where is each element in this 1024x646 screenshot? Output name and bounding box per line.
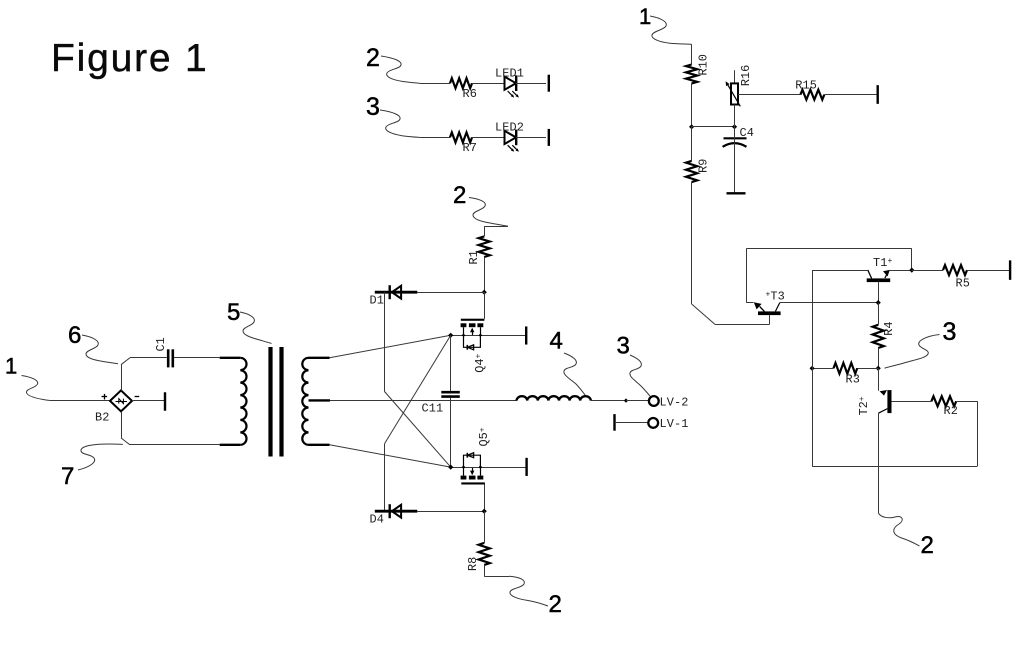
wire: secondary top diagonal to Q4 node: [330, 335, 451, 358]
node: R10/R9 junction: [689, 124, 694, 129]
wire: top box right vertical: [911, 249, 913, 271]
svg-text:2: 2: [549, 591, 562, 618]
wire: R1 top: [484, 226, 508, 228]
transformer primary winding: [240, 358, 246, 445]
MOSFET Q5 channel stubs: [461, 476, 467, 480]
terminal (B2 right): [164, 392, 166, 411]
MOSFET Q4 channel stubs: [461, 323, 467, 327]
resistor R1: [479, 236, 490, 257]
long vertical wire (left of T2 block): [812, 270, 814, 466]
wire: node to R16/C4 node: [692, 126, 735, 128]
svg-text:R9: R9: [697, 159, 711, 173]
wire: to T3 base: [715, 324, 769, 326]
wire: R15 to terminal: [824, 94, 876, 96]
resistor R15: [800, 90, 824, 100]
wire: secondary bottom diagonal to Q5 node: [330, 445, 451, 467]
resistor R10: [686, 65, 697, 84]
diode D4: [392, 505, 401, 518]
transistor T2: [878, 368, 880, 391]
terminal (R5): [1009, 260, 1011, 280]
wire: R2 to box corner: [956, 401, 977, 403]
svg-text:3: 3: [617, 333, 630, 360]
svg-text:D1: D1: [370, 294, 384, 308]
svg-text:R4: R4: [882, 322, 896, 336]
connector LV-2 circle: [649, 396, 659, 406]
LED LED1: [505, 77, 517, 90]
diode D4 lead wire: [375, 510, 418, 513]
terminal (C4 bottom): [727, 192, 746, 194]
MOSFET Q4 gate wire: [484, 292, 486, 319]
LED LED2: [505, 131, 517, 144]
node: Q4 source rail: [451, 335, 527, 337]
transformer primary top lead: [220, 357, 241, 359]
svg-text:2: 2: [921, 532, 934, 559]
svg-text:4: 4: [550, 328, 563, 355]
terminal (R15): [877, 85, 879, 104]
transformer primary bottom lead: [220, 444, 241, 446]
svg-text:R7: R7: [463, 141, 477, 155]
svg-text:LED2: LED2: [495, 121, 524, 135]
capacitor C4 curved plate: [723, 143, 747, 147]
wire: R7 to LED2: [472, 137, 505, 139]
wire: leader to B2 +: [50, 400, 110, 402]
wire: terminal to LV-1: [615, 422, 648, 424]
capacitor C11 plates: [441, 391, 460, 394]
MOSFET Q4 leads: [463, 327, 465, 335]
svg-text:5: 5: [227, 299, 240, 326]
resistor R3: [834, 363, 858, 374]
svg-text:R15: R15: [795, 79, 817, 93]
node: R1/D1/Q4-gate junction: [482, 290, 487, 295]
svg-text:Figure 1: Figure 1: [51, 37, 208, 80]
wire: node to R4: [878, 303, 880, 325]
wire: D4 branch vertical (lower): [384, 444, 386, 512]
wire: cross diagonal to Q5 node: [385, 392, 451, 468]
MOSFET Q5 body diode: [466, 453, 468, 458]
connector LV-1 circle: [648, 418, 658, 428]
svg-text:R6: R6: [463, 87, 477, 101]
svg-text:R10: R10: [697, 54, 711, 75]
wire: R10 to node: [691, 83, 693, 126]
MOSFET Q4 body diode: [466, 345, 468, 350]
terminal (LV-1): [613, 414, 615, 431]
svg-text:6: 6: [68, 322, 81, 349]
wire: leader to R7: [420, 137, 450, 139]
diode D1 lead wire: [375, 291, 418, 294]
wire: top to R10: [691, 44, 693, 64]
resistor R6: [450, 78, 472, 88]
minus sign (B2): [135, 396, 140, 398]
leader squiggle to LED2 row: [380, 110, 420, 137]
leader squiggle from T2 emitter wire: [878, 513, 919, 546]
leader squiggle to R1 wire: [469, 198, 508, 227]
wire: D1 to node: [417, 292, 484, 294]
MOSFET Q5 gate bar: [461, 482, 485, 484]
trimmer R16 body: [731, 83, 738, 104]
wire: T1 emitter to R5 node: [890, 270, 912, 272]
node: LV-2 junction: [624, 398, 628, 402]
leader squiggle to primary bottom wire: [78, 444, 123, 470]
wire: inductor to LV-2 node: [591, 400, 624, 402]
svg-text:C4: C4: [740, 126, 754, 140]
LED1 emission arrows: [508, 91, 512, 95]
wire: bottom box horizontal: [812, 466, 977, 468]
diode D1: [392, 286, 401, 299]
svg-text:2: 2: [453, 182, 466, 209]
svg-text:B2: B2: [95, 411, 109, 425]
source B2 diamond: [110, 390, 132, 411]
node: Q5 junction dot: [448, 465, 453, 470]
MOSFET Q5 leads: [463, 467, 465, 476]
wire: node to LV-2: [626, 400, 649, 402]
wire: R4 to R3 node: [878, 348, 880, 368]
wire: D1 branch vertical (upper): [384, 292, 386, 391]
wire: T1 left to long vertical: [812, 270, 868, 272]
terminal (LED2 row): [548, 129, 550, 146]
node: T1 base / T3 collector junction: [876, 300, 881, 305]
svg-text:R8: R8: [466, 557, 480, 571]
terminal (LED1 row): [548, 75, 550, 92]
svg-text:D4: D4: [370, 513, 384, 527]
wire: D4 to node: [417, 511, 484, 513]
node: Q5 source rail: [451, 467, 527, 469]
wire: B2 bottom vertical: [121, 411, 123, 438]
wire: R16 bottom to node: [734, 105, 736, 127]
svg-text:R3: R3: [846, 373, 860, 387]
wire: diagonal bend to T3 base line: [692, 304, 716, 325]
transformer core bar 1: [268, 347, 272, 457]
transformer secondary center tap lead: [309, 399, 331, 401]
capacitor C4 top plate: [724, 137, 747, 139]
svg-text:LV-2: LV-2: [660, 395, 689, 409]
MOSFET Q4 gate bar: [461, 319, 485, 321]
terminal (Q5): [525, 458, 527, 476]
wire: LED1 to terminal: [516, 83, 546, 85]
svg-text:7: 7: [61, 463, 74, 490]
wire: R3 to left vertical: [812, 368, 833, 370]
wire: R8 bottom: [484, 565, 486, 576]
resistor R9: [686, 161, 697, 182]
svg-text:3: 3: [366, 93, 380, 121]
B2 internal symbol: [116, 401, 127, 403]
svg-text:LV-1: LV-1: [660, 417, 689, 431]
node: D4/R8/Q5-gate junction: [482, 509, 487, 514]
transformer core bar 2: [279, 347, 283, 457]
MOSFET Q5 body loop: [464, 455, 481, 467]
leader squiggle from R8 wire: [509, 576, 548, 606]
leader squiggle to R10 wire: [650, 16, 692, 44]
wire: R16 to R15: [738, 94, 801, 96]
wire: chamfer to primary bottom wire: [121, 438, 130, 445]
wire: LED2 to terminal: [516, 137, 546, 139]
svg-text:R2: R2: [944, 404, 958, 418]
wire: chamfer to C1 wire: [121, 358, 130, 365]
node: R3 left junction: [810, 366, 815, 371]
transformer secondary bottom lead: [309, 444, 330, 446]
inductor (4): [517, 396, 591, 400]
svg-text:2: 2: [366, 44, 380, 72]
capacitor C1: [167, 349, 170, 367]
leader squiggle to LED1 row: [381, 56, 420, 83]
resistor R8: [479, 543, 490, 565]
transistor T3: [746, 302, 753, 304]
wire: top box left vertical: [746, 249, 748, 303]
wire: center rail from secondary tap to inductor: [330, 400, 517, 402]
trimmer stub wire above R16: [734, 70, 736, 83]
leader squiggle to core: [240, 312, 272, 344]
wire: C4 vertical: [734, 127, 736, 194]
resistor R4: [873, 325, 884, 348]
MOSFET Q4 body loop: [464, 335, 481, 347]
wire: node to R8: [484, 511, 486, 543]
node: T1 emitter junction: [909, 268, 914, 273]
svg-text:C11: C11: [422, 401, 444, 415]
transistor T1: [867, 278, 891, 282]
wire: primary bottom: [130, 444, 220, 446]
wire: leader to R6: [420, 83, 450, 85]
wire: T2 right to R2: [892, 401, 932, 403]
wire: node to R3: [857, 368, 878, 370]
wire: R9 down to bend: [691, 182, 693, 304]
svg-text:1: 1: [5, 354, 17, 379]
svg-text:LED1: LED1: [495, 67, 524, 81]
svg-text:1: 1: [639, 4, 651, 29]
wire: R1 to D1 node: [484, 257, 486, 292]
node: R3/R4/T2 junction: [876, 366, 881, 371]
capacitor C11 bottom connection: [450, 398, 452, 468]
transformer secondary top lead: [309, 357, 330, 359]
wire: B2 top vertical: [121, 365, 123, 391]
svg-text:R16: R16: [739, 65, 753, 86]
leader squiggle to R3 node: [885, 335, 940, 369]
resistor R7: [450, 132, 472, 142]
MOSFET Q5 gate wire: [484, 485, 486, 512]
wire: top box horizontal: [746, 248, 912, 250]
wire: R6 to LED1: [472, 83, 505, 85]
wire: T3 collector to T1 base node: [780, 302, 878, 304]
wire: cross diagonal to Q4 node: [385, 335, 451, 443]
terminal (Q4): [525, 326, 527, 344]
svg-text:C1: C1: [154, 337, 168, 351]
transformer secondary winding: [302, 358, 308, 445]
leader squiggle to B2 wire: [22, 376, 50, 401]
wire: node to R9: [691, 127, 693, 161]
wire: right box vertical: [977, 401, 979, 466]
svg-text:R1: R1: [467, 250, 481, 264]
leader squiggle to inductor: [564, 353, 586, 396]
svg-text:3: 3: [943, 318, 957, 346]
node: R16/C4 junction: [732, 124, 737, 129]
plus sign (B2): [102, 396, 108, 398]
wire: to C1: [130, 357, 167, 359]
wire: R5 to terminal: [967, 270, 1009, 272]
node: Q4 junction dot: [448, 333, 453, 338]
wire: C1 to primary: [174, 357, 220, 359]
leader squiggle to B2 top wire: [82, 335, 118, 364]
resistor R5: [943, 265, 967, 275]
LED2 emission arrows: [508, 145, 512, 149]
trimmer R16 arrow: [728, 84, 741, 106]
wire: node to R5: [912, 270, 943, 272]
capacitor C11 top connection: [450, 335, 452, 391]
leader squiggle to LV-2: [630, 355, 650, 396]
wire: B2 - to terminal: [132, 400, 164, 402]
resistor R2: [931, 396, 956, 406]
svg-text:R5: R5: [956, 276, 970, 290]
